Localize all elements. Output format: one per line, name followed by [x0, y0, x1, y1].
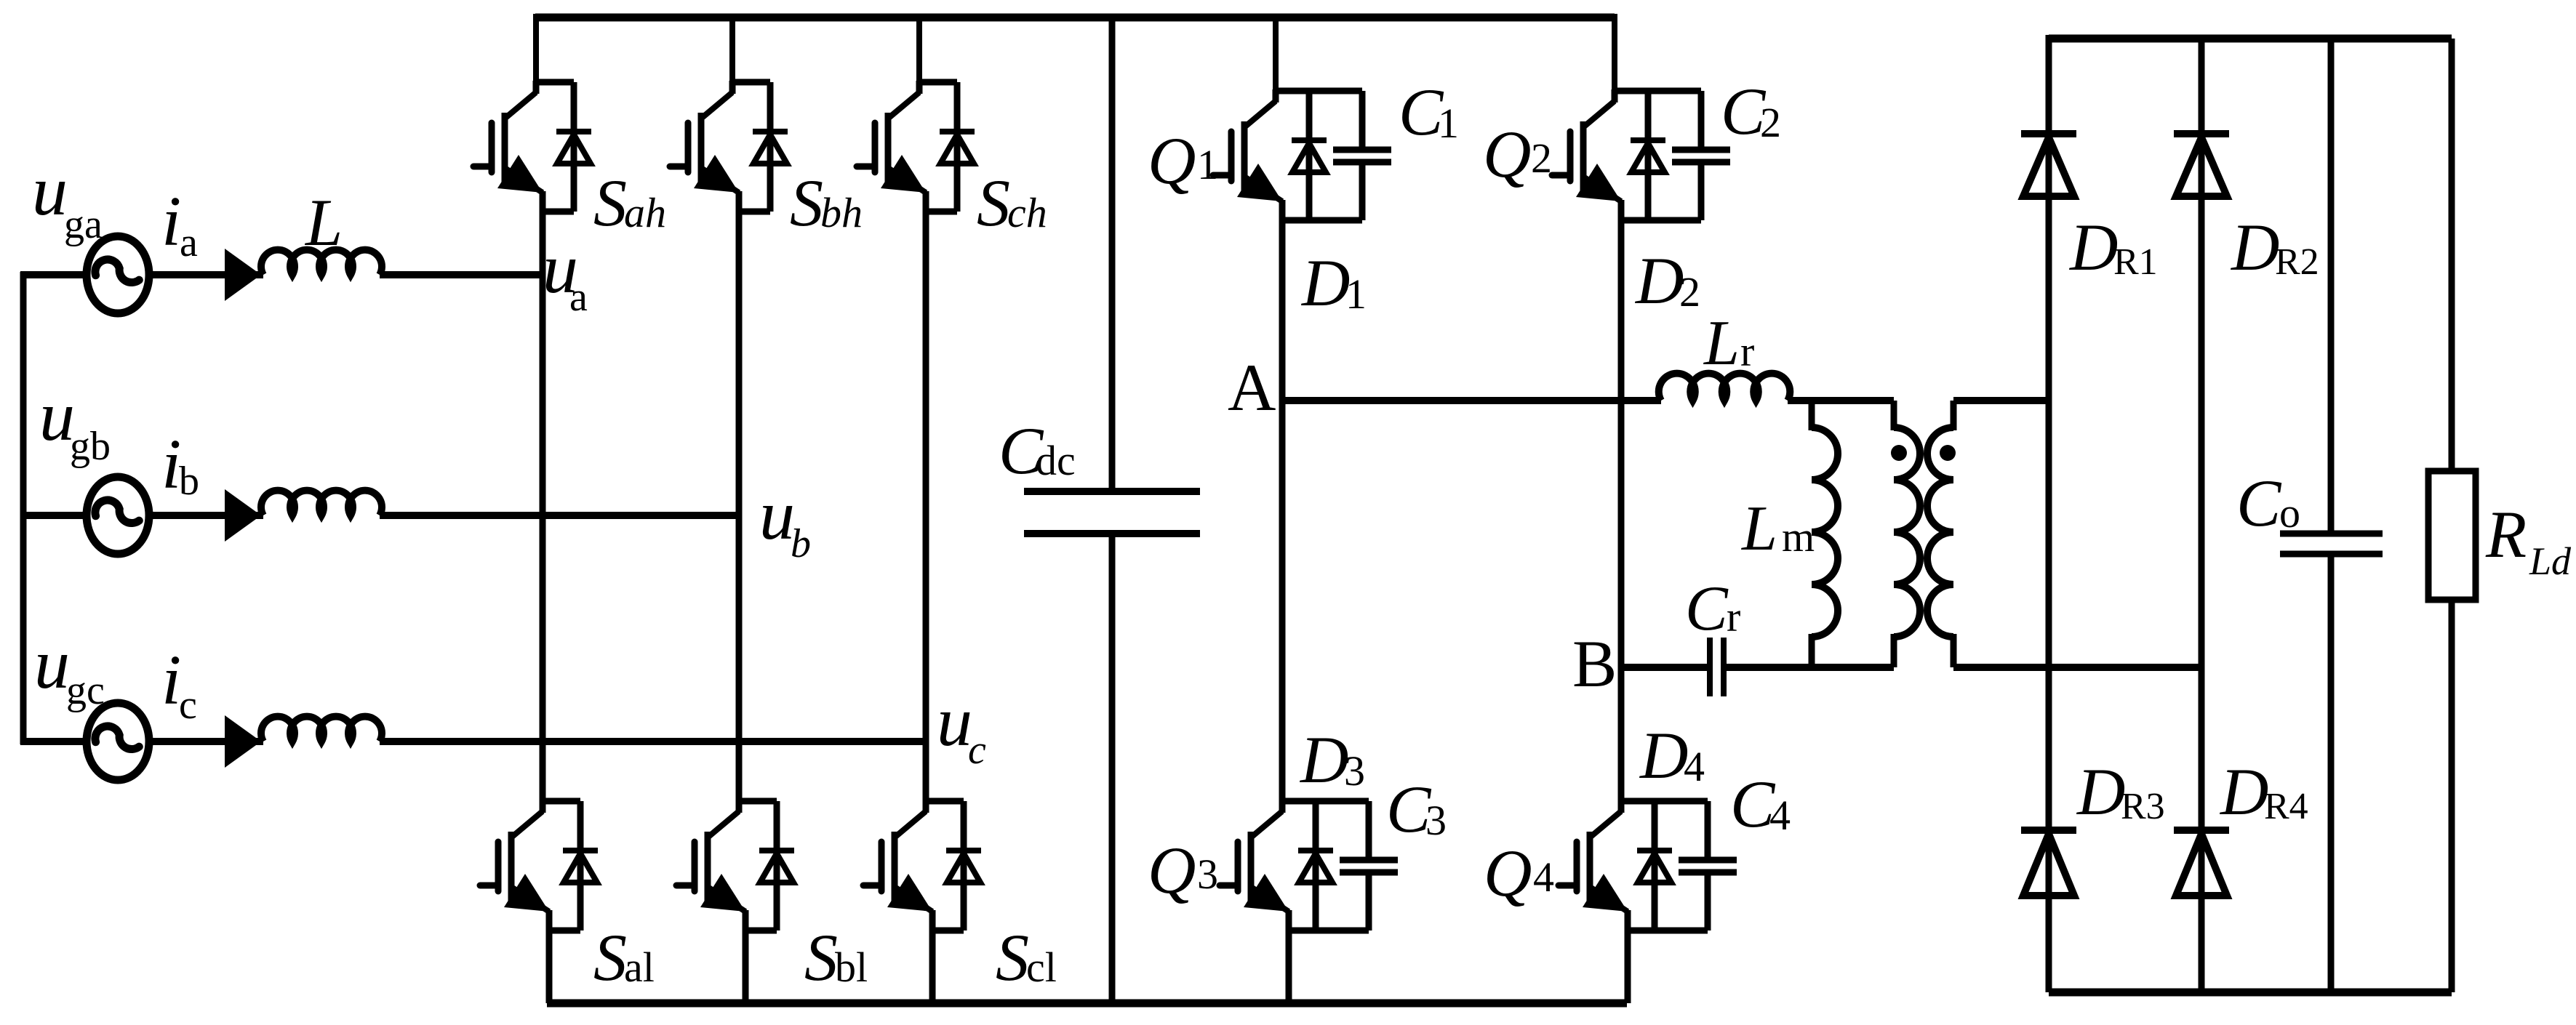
svg-text:b: b — [179, 459, 199, 504]
svg-text:L: L — [304, 185, 343, 260]
svg-text:A: A — [1228, 350, 1276, 425]
svg-text:Q: Q — [1148, 124, 1196, 198]
svg-text:D: D — [2230, 210, 2279, 284]
svg-text:o: o — [2279, 489, 2300, 536]
svg-text:D: D — [2068, 210, 2118, 284]
svg-text:4: 4 — [1684, 743, 1705, 790]
svg-text:L: L — [1703, 308, 1740, 379]
svg-text:R2: R2 — [2275, 241, 2319, 283]
svg-text:a: a — [180, 220, 198, 265]
svg-text:S: S — [804, 920, 838, 994]
svg-text:D: D — [1639, 718, 1688, 792]
svg-text:u: u — [759, 476, 795, 555]
svg-text:2: 2 — [1531, 134, 1552, 182]
svg-text:Ld: Ld — [2529, 539, 2572, 583]
svg-text:3: 3 — [1197, 851, 1218, 898]
svg-text:gb: gb — [70, 424, 111, 469]
svg-text:S: S — [593, 920, 627, 994]
svg-text:R3: R3 — [2121, 786, 2165, 827]
svg-text:m: m — [1782, 513, 1815, 560]
svg-text:u: u — [937, 683, 972, 761]
svg-text:u: u — [34, 625, 70, 704]
svg-text:R4: R4 — [2264, 786, 2308, 827]
svg-text:3: 3 — [1425, 797, 1447, 844]
svg-text:u: u — [32, 152, 68, 230]
svg-text:2: 2 — [1679, 268, 1700, 315]
svg-text:1: 1 — [1438, 100, 1459, 147]
svg-text:ah: ah — [624, 189, 666, 236]
svg-text:B: B — [1572, 627, 1617, 701]
svg-text:S: S — [977, 166, 1010, 240]
svg-text:S: S — [593, 166, 627, 240]
svg-text:R1: R1 — [2113, 241, 2158, 283]
svg-text:c: c — [968, 728, 986, 773]
svg-text:R: R — [2485, 497, 2527, 571]
svg-text:bl: bl — [835, 944, 868, 991]
svg-text:Q: Q — [1148, 833, 1196, 907]
svg-text:b: b — [791, 521, 811, 566]
svg-text:c: c — [179, 683, 197, 728]
svg-text:3: 3 — [1344, 747, 1365, 795]
svg-text:4: 4 — [1769, 792, 1791, 839]
svg-text:cl: cl — [1026, 944, 1057, 991]
svg-text:a: a — [569, 275, 588, 320]
svg-text:C: C — [2236, 466, 2282, 540]
svg-text:D: D — [1300, 246, 1350, 320]
svg-text:al: al — [624, 944, 655, 991]
svg-text:D: D — [1299, 723, 1348, 797]
svg-text:ch: ch — [1007, 189, 1047, 236]
svg-text:i: i — [161, 182, 181, 261]
svg-text:dc: dc — [1036, 437, 1076, 484]
svg-text:D: D — [2076, 755, 2125, 829]
svg-text:D: D — [1634, 244, 1684, 318]
svg-text:1: 1 — [1197, 141, 1218, 188]
svg-text:1: 1 — [1345, 270, 1367, 318]
svg-text:r: r — [1740, 328, 1754, 375]
svg-text:D: D — [2219, 755, 2268, 829]
svg-text:ga: ga — [64, 202, 103, 247]
svg-text:Q: Q — [1483, 117, 1531, 191]
svg-text:C: C — [1685, 574, 1729, 644]
svg-text:r: r — [1727, 593, 1740, 640]
svg-text:2: 2 — [1760, 99, 1781, 146]
svg-text:L: L — [1740, 494, 1777, 564]
svg-text:S: S — [996, 920, 1029, 994]
svg-text:bh: bh — [820, 189, 863, 236]
svg-text:gc: gc — [66, 668, 105, 713]
svg-text:4: 4 — [1533, 853, 1554, 901]
svg-text:Q: Q — [1484, 836, 1532, 910]
svg-text:S: S — [790, 166, 823, 240]
